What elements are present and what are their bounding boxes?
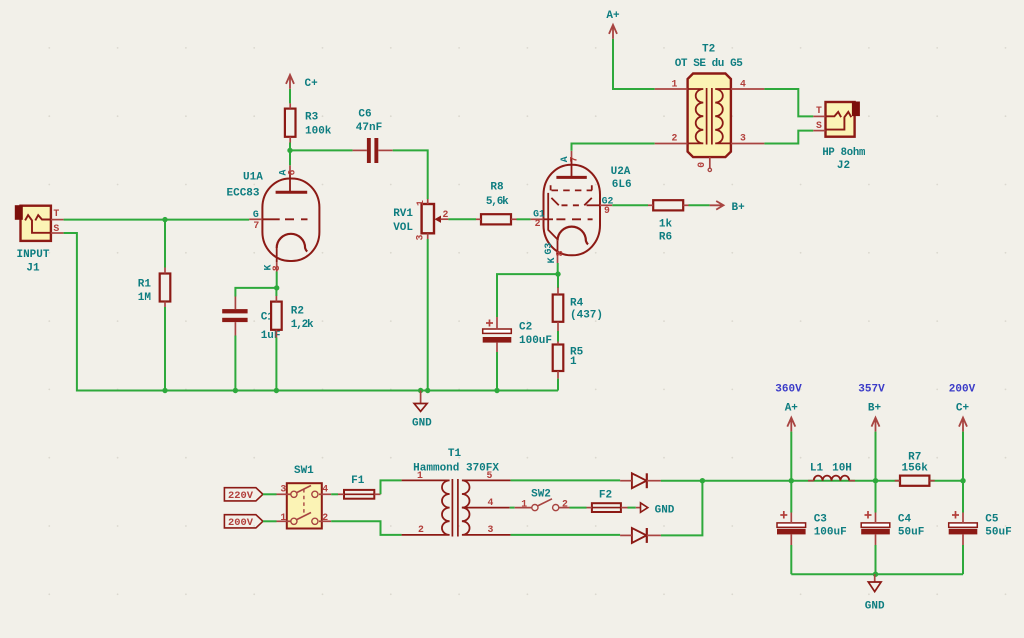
svg-text:3: 3	[487, 524, 493, 535]
svg-text:R2: R2	[291, 305, 304, 317]
wire to C3	[790, 481, 792, 513]
svg-text:3: 3	[740, 133, 746, 144]
svg-text:C4: C4	[898, 513, 912, 525]
svg-text:G3: G3	[543, 243, 554, 255]
wire R4 to R5	[557, 331, 559, 342]
net label 200V	[224, 515, 263, 528]
svg-text:A+: A+	[785, 403, 799, 415]
wire diode to node	[661, 480, 703, 482]
node RV1/gnd bus	[425, 388, 430, 393]
svg-text:OT SE du G5: OT SE du G5	[675, 58, 744, 70]
ground GND (right)	[636, 503, 648, 512]
wire C4 bottom	[875, 545, 877, 574]
node R2/gnd bus	[274, 388, 279, 393]
wire C5 bottom	[962, 545, 964, 574]
svg-text:0: 0	[696, 162, 707, 168]
svg-text:1uF: 1uF	[261, 330, 281, 342]
wire plate to node	[289, 150, 291, 165]
svg-text:4: 4	[487, 497, 493, 508]
wire C+ to R3	[289, 89, 291, 103]
svg-text:B+: B+	[732, 202, 746, 214]
power C+ (rail)	[959, 418, 967, 432]
svg-text:R3: R3	[305, 111, 319, 123]
wire T1.5 to diode	[511, 479, 620, 481]
svg-text:156k: 156k	[901, 463, 928, 475]
wire C1 bottom	[234, 336, 236, 391]
svg-text:6L6: 6L6	[612, 179, 632, 191]
svg-text:C+: C+	[305, 78, 319, 90]
svg-text:C3: C3	[814, 513, 828, 525]
svg-text:A+: A+	[606, 10, 620, 22]
wire F1 to T1.1	[381, 480, 402, 494]
resistor R8	[481, 214, 511, 224]
wire 220V to SW1.3	[263, 493, 277, 495]
svg-text:ECC83: ECC83	[227, 187, 260, 199]
resistor R6	[653, 200, 683, 210]
svg-text:3: 3	[414, 235, 425, 241]
wire to C4	[875, 481, 877, 513]
svg-text:357V: 357V	[858, 383, 885, 395]
wire R6 to B+	[689, 204, 710, 206]
svg-text:200V: 200V	[228, 517, 254, 529]
resistor R4	[553, 295, 564, 322]
wire RV1.3 to gnd bus	[427, 239, 429, 391]
wire R3 bottom	[289, 143, 291, 151]
svg-text:4: 4	[740, 79, 746, 90]
svg-text:50uF: 50uF	[898, 527, 924, 539]
svg-text:7: 7	[569, 156, 580, 162]
svg-text:1: 1	[521, 498, 527, 509]
node gnd bus tap	[873, 572, 878, 577]
switch SW1	[287, 483, 322, 528]
svg-text:J1: J1	[26, 263, 40, 275]
connector J1 INPUT	[15, 205, 51, 241]
potentiometer RV1 VOL	[422, 204, 449, 233]
wire ground bus	[165, 390, 558, 392]
wire C+ tap	[962, 432, 964, 481]
node A+ tap	[789, 478, 794, 483]
svg-text:9: 9	[604, 205, 610, 216]
svg-text:1: 1	[570, 356, 577, 368]
svg-text:360V: 360V	[775, 383, 802, 395]
node R3/C6/plate	[287, 148, 292, 153]
wire R1 bottom	[164, 307, 166, 391]
power C+	[286, 75, 294, 89]
fuse F1	[344, 490, 374, 499]
svg-text:T2: T2	[702, 43, 715, 55]
power B+	[710, 201, 724, 210]
svg-text:47nF: 47nF	[356, 122, 382, 134]
wire R5 to gnd bus	[557, 379, 559, 391]
svg-text:(437): (437)	[570, 310, 603, 322]
connector J2 HP 8ohm	[826, 102, 860, 137]
svg-text:VOL: VOL	[393, 222, 413, 234]
svg-text:200V: 200V	[949, 383, 976, 395]
wire node to C2	[497, 274, 558, 317]
svg-text:100uF: 100uF	[519, 335, 552, 347]
svg-text:2: 2	[672, 133, 678, 144]
inductor L1	[814, 476, 850, 481]
svg-text:B+: B+	[868, 403, 882, 415]
svg-text:C+: C+	[956, 403, 970, 415]
svg-text:1: 1	[672, 79, 678, 90]
capacitor C1	[222, 309, 247, 322]
resistor R5	[553, 345, 564, 372]
wire R1 top	[164, 220, 166, 268]
wire bottom gnd bus	[791, 573, 963, 575]
resistor R2	[271, 302, 282, 330]
wire J1.S to ground bus	[64, 233, 165, 391]
svg-text:R1: R1	[138, 279, 152, 291]
svg-text:HP 8ohm: HP 8ohm	[822, 147, 865, 159]
wire C2 bottom	[496, 352, 498, 391]
wire cathode down	[276, 272, 278, 288]
wire to R4	[557, 274, 559, 288]
resistor R3	[285, 109, 296, 137]
capacitor C6	[367, 138, 378, 163]
wire R8 to U2A.G1	[517, 218, 531, 220]
svg-text:2: 2	[443, 209, 449, 220]
wire T2.3 to J2.S	[764, 131, 813, 144]
svg-text:F1: F1	[351, 475, 365, 487]
svg-text:10H: 10H	[832, 463, 852, 475]
svg-text:RV1: RV1	[393, 208, 413, 220]
svg-text:GND: GND	[865, 601, 885, 613]
wire T1.3 to diode	[511, 534, 620, 536]
wire SW2 to F2	[570, 507, 587, 509]
wire SW1.2 to T1.2	[331, 521, 401, 535]
svg-text:T1: T1	[448, 448, 462, 460]
svg-text:5,6k: 5,6k	[486, 196, 509, 208]
wire B+ tap	[875, 432, 877, 481]
svg-text:8: 8	[554, 250, 565, 256]
power B+ (rail)	[872, 418, 880, 432]
wire R2 top	[275, 288, 277, 296]
ground GND (bottom)	[868, 574, 881, 591]
resistor R1	[160, 274, 171, 302]
svg-text:U2A: U2A	[611, 166, 631, 178]
svg-text:2: 2	[322, 512, 328, 523]
diode D2	[632, 528, 647, 543]
svg-text:S: S	[816, 120, 822, 131]
svg-text:GND: GND	[655, 504, 675, 516]
svg-text:SW2: SW2	[531, 489, 551, 501]
wire R2 bottom	[275, 338, 277, 391]
wire F2 to GND	[628, 507, 636, 509]
node C1/gnd bus	[233, 388, 238, 393]
svg-text:8: 8	[271, 265, 282, 271]
capacitor C3	[777, 511, 806, 534]
svg-text:R4: R4	[570, 297, 584, 309]
svg-text:L1: L1	[810, 463, 824, 475]
capacitor C4	[861, 511, 890, 534]
svg-text:2: 2	[562, 498, 568, 509]
svg-text:F2: F2	[599, 490, 612, 502]
wire U2A cathode down	[557, 263, 559, 274]
svg-text:100k: 100k	[305, 125, 332, 137]
wire bottom diode to node	[661, 481, 703, 536]
svg-text:J2: J2	[837, 160, 850, 172]
svg-text:C5: C5	[985, 513, 999, 525]
svg-text:3: 3	[280, 484, 286, 495]
svg-text:50uF: 50uF	[985, 527, 1011, 539]
wire U2A.G2 to R6	[612, 204, 648, 206]
svg-text:U1A: U1A	[243, 172, 263, 184]
wire to C5	[962, 481, 964, 513]
wire rectifier rail	[702, 480, 963, 482]
svg-text:INPUT: INPUT	[16, 249, 49, 261]
svg-text:6: 6	[287, 169, 298, 175]
svg-text:G: G	[253, 209, 259, 220]
power A+	[609, 25, 617, 39]
capacitor C5	[949, 511, 978, 534]
svg-text:1: 1	[280, 512, 286, 523]
svg-text:C2: C2	[519, 322, 532, 334]
svg-text:100uF: 100uF	[814, 527, 847, 539]
wire 200V to SW1.1	[263, 520, 277, 522]
svg-text:GND: GND	[412, 417, 432, 429]
wire J1.T to U1A grid	[64, 219, 250, 221]
svg-text:4: 4	[322, 484, 328, 495]
op-amp U1A ECC83 triode	[262, 172, 319, 262]
wire RV1.2 to R8	[448, 218, 476, 220]
svg-text:1k: 1k	[659, 219, 673, 231]
capacitor C2	[483, 320, 512, 343]
wire SW1.4 to F1	[331, 493, 338, 495]
transformer T1 Hammond 370FX	[402, 479, 511, 537]
node rectifier out	[700, 478, 705, 483]
svg-text:2: 2	[535, 218, 541, 229]
svg-text:1M: 1M	[138, 292, 152, 304]
svg-text:T: T	[53, 208, 59, 219]
node C2/gnd bus	[494, 388, 499, 393]
node K/R4/C2	[555, 271, 560, 276]
svg-text:R6: R6	[659, 232, 672, 244]
power A+ (rail)	[787, 418, 795, 432]
node R1/gnd bus	[162, 388, 167, 393]
wire T1.4 to SW2	[510, 507, 515, 509]
ground GND	[414, 391, 427, 412]
wire C3 bottom	[790, 545, 792, 574]
svg-text:1: 1	[415, 200, 426, 206]
svg-text:T: T	[816, 105, 822, 116]
op-amp U2A 6L6 pentode	[544, 158, 601, 256]
wire C6 to RV1	[393, 150, 428, 199]
diode D1	[632, 473, 647, 488]
svg-text:S: S	[53, 223, 59, 234]
svg-text:R8: R8	[490, 182, 504, 194]
node C+ tap	[960, 478, 965, 483]
svg-text:K: K	[546, 257, 557, 263]
node J1.T/R1	[162, 217, 167, 222]
fuse F2	[592, 503, 621, 512]
svg-text:Hammond 370FX: Hammond 370FX	[413, 462, 499, 474]
node K/C1/R2	[274, 285, 279, 290]
switch SW2	[532, 499, 559, 511]
svg-text:SW1: SW1	[294, 465, 314, 477]
svg-text:1,2k: 1,2k	[291, 319, 314, 331]
svg-text:C6: C6	[358, 109, 371, 121]
node gnd tap	[418, 388, 423, 393]
wire U2A plate to T2.2	[572, 144, 655, 151]
net label 220V	[224, 488, 263, 501]
wire T2.4 to J2.T	[764, 89, 813, 116]
pin 0 T2	[709, 157, 711, 168]
svg-text:220V: 220V	[228, 490, 254, 502]
wire A+ tap	[790, 432, 792, 481]
wire node to C6	[290, 149, 353, 151]
node B+ tap	[873, 478, 878, 483]
transformer T2 OT SE du G5	[688, 74, 731, 158]
wire A+ to T2.1	[613, 39, 655, 89]
svg-text:2: 2	[418, 524, 424, 535]
wire node to C1	[235, 288, 276, 297]
svg-text:7: 7	[253, 220, 259, 231]
resistor R7	[900, 476, 929, 486]
